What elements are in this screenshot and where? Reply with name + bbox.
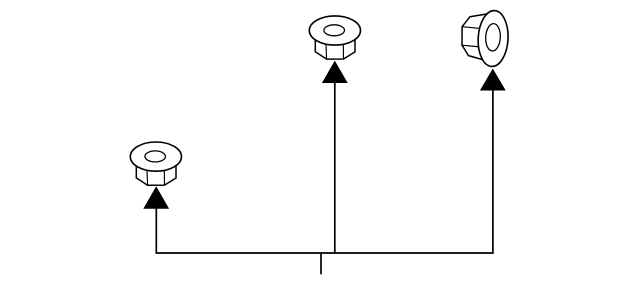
arrow to left nut: [143, 186, 169, 208]
wire middle vertical: [334, 83, 336, 254]
wire bottom stub: [320, 253, 322, 274]
arrow to right nut: [480, 69, 506, 91]
arrow to middle nut: [322, 61, 348, 83]
wire bracket: left vertical, bottom horizontal, right vertical: [156, 90, 493, 253]
flange nut right (front view, hex behind): [462, 10, 509, 67]
flange nut middle (angled top view): [309, 16, 360, 59]
flange nut left (angled top view): [130, 142, 181, 185]
